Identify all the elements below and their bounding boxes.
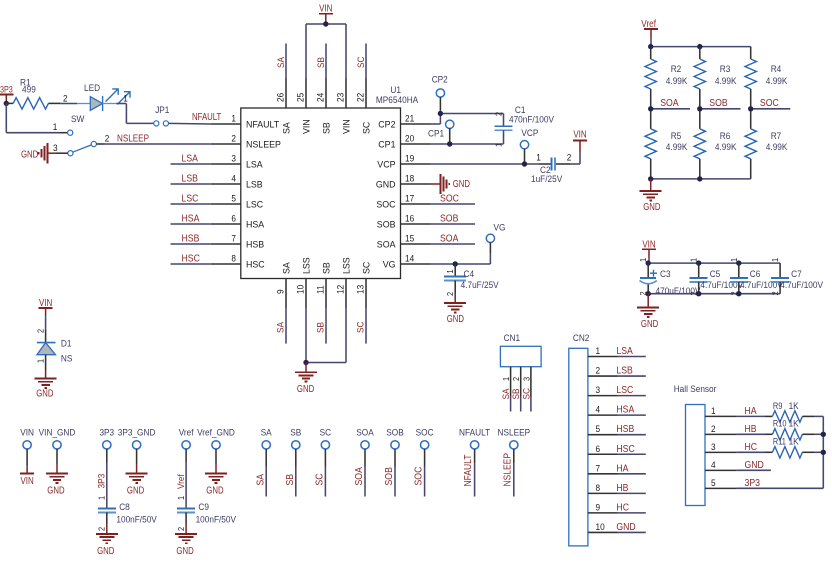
svg-text:Hall Sensor: Hall Sensor [674,384,717,395]
svg-text:SB: SB [285,474,296,486]
wire C1 pin1 to pin20 [431,130,504,144]
svg-text:26: 26 [276,93,287,102]
CN2 pin 8 net HB [588,483,646,494]
svg-text:499: 499 [22,85,36,96]
svg-text:LSA: LSA [182,154,199,165]
svg-text:NSLEEP: NSLEEP [117,134,149,145]
svg-text:SOB: SOB [386,428,404,439]
svg-text:2: 2 [711,424,716,435]
svg-text:7: 7 [231,234,236,245]
svg-text:C3: C3 [660,269,671,280]
svg-text:15: 15 [405,234,414,245]
power port 3P3 (left) [0,85,13,104]
wire VIN rail to pins 25/23 [306,21,346,78]
CN2 pin 9 net HC [588,502,646,513]
svg-text:LSA: LSA [246,160,263,171]
svg-text:12: 12 [336,285,347,294]
svg-text:1K: 1K [789,437,800,448]
svg-text:GND: GND [176,546,193,557]
svg-text:3: 3 [231,154,236,165]
resistor R6 4.99K [694,109,737,179]
svg-text:4.7uF/100V: 4.7uF/100V [780,280,823,291]
wire pin24 SB [325,44,327,79]
svg-text:Vref_GND: Vref_GND [197,428,235,439]
svg-text:SOA: SOA [660,98,679,109]
svg-text:HA: HA [745,406,757,417]
svg-text:GND: GND [447,314,464,325]
svg-text:SOB: SOB [709,98,728,109]
CN2 pin 4 net HSA [588,405,646,416]
U1 top pin 23 VIN [336,78,353,134]
svg-text:SC: SC [521,388,532,400]
CN1 pin 1 net SA [501,367,512,412]
capacitor C8 100nF/50V [97,502,158,531]
svg-text:10: 10 [296,285,307,294]
svg-text:SOB: SOB [377,220,396,231]
svg-text:9: 9 [596,502,601,513]
svg-text:6: 6 [596,444,601,455]
connector test point NFAULT [459,428,490,497]
wire R9 to 3P3 rail [814,415,823,417]
svg-text:SA: SA [255,474,266,486]
svg-text:R11: R11 [773,437,786,448]
svg-text:3P3_GND: 3P3_GND [118,428,156,439]
svg-text:NFAULT: NFAULT [463,455,474,487]
svg-text:LED: LED [84,83,100,94]
power port VIN (bulk caps) [642,240,656,258]
svg-text:R7: R7 [771,131,782,142]
resistor R2 4.99K [645,47,688,109]
svg-text:24: 24 [316,93,327,102]
capacitor C7 4.7uF/100V [770,258,823,296]
junction VIN rail [323,21,328,26]
wire Vref to C9, net Vref [176,462,187,508]
svg-text:SC: SC [356,56,367,68]
svg-text:Vref: Vref [176,474,187,489]
svg-text:SOC: SOC [440,194,459,205]
Hall pin 2 net HB [705,424,757,435]
svg-text:100nF/50V: 100nF/50V [196,515,237,526]
connector test point Vref_GND [197,428,235,465]
junction rail R10 [821,432,826,437]
svg-text:21: 21 [405,114,414,125]
CN2 pin 1 net LSA [588,346,646,357]
svg-text:HC: HC [745,442,758,453]
wire Vref top rail [651,38,751,47]
Hall pin 3 net HC [705,442,757,453]
connector test point SB [285,428,301,497]
power port VIN (test point, down) [20,466,34,487]
resistor R9 1K [772,401,814,422]
ground GND (D1) [35,370,57,400]
wire pin19 VCP rail [431,163,540,165]
svg-text:3P3: 3P3 [745,478,761,489]
connector test point SC [315,428,332,497]
ground GND (bulk caps) [637,294,659,330]
svg-text:Vref: Vref [179,428,194,439]
svg-text:1: 1 [97,496,107,500]
svg-text:11: 11 [316,285,327,294]
svg-text:NFAULT: NFAULT [192,112,221,123]
svg-text:VCP: VCP [521,128,538,139]
wire Hall pin3 to R11 [736,451,765,453]
svg-text:GND: GND [297,384,314,395]
svg-text:VIN: VIN [20,428,34,439]
SW pin 2 contact [91,141,96,146]
wire net SB (U1 pin 11) [316,308,327,344]
wire pin26 SA [285,44,287,79]
svg-text:3: 3 [596,385,601,396]
svg-text:SOA: SOA [377,240,396,251]
svg-text:SA: SA [261,428,273,439]
svg-text:MP6540HA: MP6540HA [376,95,419,106]
junction rail R11 [821,450,826,455]
CN2 pin 5 net HSB [588,424,646,435]
junction bottom rail R5 [648,176,653,181]
ground GND (3P3_GND) [126,464,148,497]
svg-text:2: 2 [63,94,68,105]
svg-text:VG: VG [494,223,506,234]
svg-text:SOA: SOA [356,428,374,439]
U1 top pin 22 SC [356,78,373,134]
svg-text:SOC: SOC [416,428,434,439]
svg-text:3: 3 [521,377,531,381]
U1 right pin 19 VCP [377,154,430,171]
junction CP2 node [438,111,443,116]
wire pin21 to CP2/C1 [431,110,504,126]
ground GND (U1 pin18) [431,174,471,194]
svg-text:470nF/100V: 470nF/100V [509,115,555,126]
U1 bottom pin 10 LSS [296,257,313,308]
wire D1 to GND [36,355,46,370]
svg-text:2: 2 [97,527,107,531]
ground GND (Vref_GND) [205,464,227,497]
connector test point NSLEEP [498,428,531,497]
svg-text:1: 1 [36,359,46,363]
svg-text:HSA: HSA [246,220,265,231]
svg-text:R5: R5 [671,131,682,142]
ground GND (VIN_GND) [46,464,68,497]
connector CP1 [428,120,454,144]
svg-text:2: 2 [231,134,236,145]
connector VCP [520,128,538,164]
U1 right pin 18 GND [376,174,431,191]
wire 3P3 to C8, net 3P3 [97,462,108,508]
svg-text:SC: SC [362,122,373,134]
svg-text:1: 1 [53,122,58,133]
svg-text:17: 17 [405,194,414,205]
svg-text:CN1: CN1 [504,333,520,344]
junction SOB [697,106,702,111]
wire net LSC (U1 pin 5) [171,194,211,205]
wire 3P3 to SW pin1 [6,103,67,133]
svg-text:HSB: HSB [182,234,200,245]
wire bulk cap bottom rail [648,293,780,295]
svg-text:GND: GND [745,460,764,471]
wire net SOB tap [700,98,741,109]
wire net SOA tap [651,98,690,109]
wire net SOC tap [751,98,791,109]
connector CN1 [500,333,541,367]
junction bottom rail C6 [736,291,741,296]
capacitor C6 4.7uF/100V [729,258,783,296]
connector test point SOA [354,428,374,497]
svg-text:JP1: JP1 [155,105,169,116]
svg-text:HSC: HSC [246,260,265,271]
svg-text:23: 23 [336,93,347,102]
CN2 pin 10 net GND [588,522,646,533]
connector test point VIN_GND [39,428,76,465]
svg-text:3P3: 3P3 [0,85,13,95]
svg-text:SB: SB [322,122,333,134]
U1 right pin 15 SOA [377,234,431,251]
svg-text:CP1: CP1 [378,140,395,151]
svg-text:1: 1 [176,496,186,500]
svg-text:1: 1 [445,269,455,273]
LED arrows [106,89,131,105]
U1 left pin 4 LSB [211,174,263,191]
svg-text:25: 25 [296,93,307,102]
op-amp U1 MP6540HA chip body [241,85,419,279]
capacitor C1 470nF/100V [494,105,555,147]
svg-text:NSLEEP: NSLEEP [498,428,531,439]
wire R10 to 3P3 rail [814,433,823,435]
svg-text:SW: SW [71,114,84,125]
SW pin 3 contact [68,151,73,156]
CN2 pin 7 net HA [588,463,646,474]
svg-text:NS: NS [61,354,73,365]
svg-text:HSC: HSC [616,444,634,455]
power port VIN (top of U1) [319,4,333,22]
junction CP1 node [447,141,452,146]
junction top rail C6 [736,260,741,265]
U1 left pin 2 NSLEEP [211,134,281,151]
svg-text:SOA: SOA [354,467,365,486]
svg-text:2: 2 [567,153,572,164]
svg-text:GND: GND [453,179,470,190]
junction top rail C5 [696,260,701,265]
connector CP2 [432,75,448,111]
svg-text:SB: SB [322,262,333,274]
svg-text:2: 2 [511,377,521,381]
wire Hall pin1 to R9 [736,415,765,417]
svg-text:NFAULT: NFAULT [246,120,279,131]
svg-text:HB: HB [745,424,757,435]
connector test point VIN [20,428,34,467]
U1 left pin 5 LSC [211,194,264,211]
wire JP1 to U1 pin1, net NFAULT [169,112,222,124]
svg-text:SOC: SOC [376,200,395,211]
svg-text:20: 20 [405,134,414,145]
U1 top pin 24 SB [316,78,333,134]
svg-text:1: 1 [638,258,648,262]
resistor R11 1K [772,437,814,458]
junction 3P3 node [4,101,9,106]
resistor R4 4.99K [745,47,788,109]
svg-text:LSB: LSB [616,366,633,377]
SW blade [73,145,92,152]
svg-text:SOB: SOB [440,214,459,225]
power port VIN (right of C2) [573,130,587,153]
CN1 pin 2 net SB [511,367,522,412]
svg-text:2: 2 [176,527,186,531]
svg-text:4.7uF/25V: 4.7uF/25V [461,280,500,291]
wire GND to SW pin3 [56,152,68,154]
svg-text:LSA: LSA [616,346,633,357]
wire net HSB (U1 pin 7) [171,234,211,245]
Hall pin 1 net HA [705,406,757,417]
junction VCP node [522,161,527,166]
wire R1 to LED, pin 2 label [60,94,77,105]
svg-text:GND: GND [376,180,396,191]
svg-text:GND: GND [206,486,223,497]
svg-text:NFAULT: NFAULT [459,428,490,439]
svg-text:VIN: VIN [302,119,313,134]
resistor R7 4.99K [745,109,788,179]
U1 top pin 25 VIN [296,78,313,134]
svg-text:14: 14 [405,254,414,265]
svg-text:VCP: VCP [377,160,395,171]
U1 bottom pin 9 SA [276,262,293,308]
svg-text:LSB: LSB [246,180,263,191]
svg-text:9: 9 [276,289,287,294]
capacitor C2 1uF/25V [531,153,571,186]
svg-text:SA: SA [282,122,293,134]
svg-text:LSB: LSB [182,174,199,185]
U1 right pin 16 SOB [377,214,431,231]
svg-text:4: 4 [711,460,716,471]
ground GND (SW) [21,143,56,163]
junction top rail C3 [646,260,651,265]
junction bottom rail R6 [697,176,702,181]
svg-text:1uF/25V: 1uF/25V [531,174,563,185]
U1 top pin 26 SA [276,78,293,134]
svg-text:2: 2 [105,134,110,145]
capacitor C5 4.7uF/100V [689,258,744,296]
svg-text:SA: SA [276,56,287,68]
svg-text:CP1: CP1 [428,129,444,140]
wire VIN to D1 [36,316,46,342]
connector Hall Sensor [674,384,717,506]
U1 bottom pin 12 LSS [336,257,353,308]
U1 left pin 8 HSC [211,254,265,271]
ground GND (LSS) [295,363,317,396]
svg-text:1K: 1K [789,401,800,412]
power port Vref [641,19,658,38]
ground GND (divider) [640,179,662,213]
svg-text:4.99K: 4.99K [766,76,788,87]
svg-text:R4: R4 [771,64,782,75]
svg-text:4.99K: 4.99K [666,142,688,153]
svg-text:22: 22 [356,93,367,102]
svg-text:HSB: HSB [616,424,634,435]
wire pin22 SC [365,44,367,79]
svg-text:18: 18 [405,174,414,185]
wire net SA (U1 pin 9) [276,308,287,344]
svg-text:1: 1 [596,346,601,357]
LED diode [77,83,116,111]
wire net SC (U1 pin 13) [356,308,367,344]
svg-text:4.99K: 4.99K [666,76,688,87]
svg-text:5: 5 [596,424,601,435]
capacitor C9 100nF/50V [176,502,237,531]
svg-text:1: 1 [231,114,236,125]
svg-text:HC: HC [616,502,629,513]
svg-text:2: 2 [36,329,46,333]
svg-text:HSC: HSC [182,254,200,265]
svg-text:4.99K: 4.99K [715,142,737,153]
svg-text:1: 1 [770,258,780,262]
jumper JP1 [154,105,170,126]
wire net SOA (U1 pin 15) [431,234,476,245]
svg-text:SOB: SOB [384,467,395,486]
svg-text:C4: C4 [464,269,475,280]
ground GND (C9) [175,524,197,557]
junction bottom rail C5 [696,291,701,296]
svg-text:LSC: LSC [246,200,263,211]
capacitor C4 4.7uF/25V [444,264,499,296]
resistor R10 1K [772,419,814,440]
svg-text:R10: R10 [773,419,787,430]
svg-text:GND: GND [97,546,114,557]
svg-text:SB: SB [316,322,327,333]
svg-text:VIN: VIN [20,476,33,487]
svg-text:C6: C6 [750,269,761,280]
svg-text:VIN: VIN [319,4,332,15]
svg-text:HSB: HSB [246,240,264,251]
Hall pin 5 net 3P3 [705,478,760,489]
svg-text:16: 16 [405,214,414,225]
U1 right pin 21 CP2 [378,114,430,131]
wire R11 to 3P3 rail [814,451,823,453]
resistor R1 499 [6,78,60,110]
connector test point SA [255,428,272,497]
wire net SOB (U1 pin 16) [431,214,476,225]
U1 left pin 6 HSA [211,214,265,231]
wire Hall GND pin4 [736,469,771,471]
svg-text:NSLEEP: NSLEEP [246,140,281,151]
wire bottom rail [651,178,751,180]
svg-text:8: 8 [231,254,236,265]
svg-text:3P3: 3P3 [97,474,108,489]
CN2 pin 3 net LSC [588,385,646,396]
wire net HSA (U1 pin 6) [171,214,211,225]
Hall pin 4 net GND [705,460,764,471]
svg-text:4.99K: 4.99K [715,76,737,87]
SW pin 1 contact [68,130,73,135]
U1 left pin 7 HSB [211,234,264,251]
ground GND (C8) [96,524,118,557]
svg-text:CN2: CN2 [573,333,590,344]
svg-text:5: 5 [231,194,236,205]
svg-text:C5: C5 [710,269,721,280]
svg-text:GND: GND [47,486,64,497]
svg-text:8: 8 [596,483,601,494]
svg-text:C7: C7 [791,269,802,280]
U1 left pin 1 NFAULT [211,114,280,131]
connector test point Vref [179,428,194,463]
svg-text:7: 7 [596,463,601,474]
svg-text:1K: 1K [789,419,800,430]
wire LSS pins 10/12 to ground [306,308,346,363]
connector test point 3P3 [99,428,114,463]
svg-text:1: 1 [711,406,716,417]
wire bulk cap top rail [648,257,780,263]
wire Hall pin2 to R10 [736,433,765,435]
svg-text:SB: SB [316,57,327,68]
junction SOC [748,106,753,111]
svg-text:SC: SC [315,473,326,485]
